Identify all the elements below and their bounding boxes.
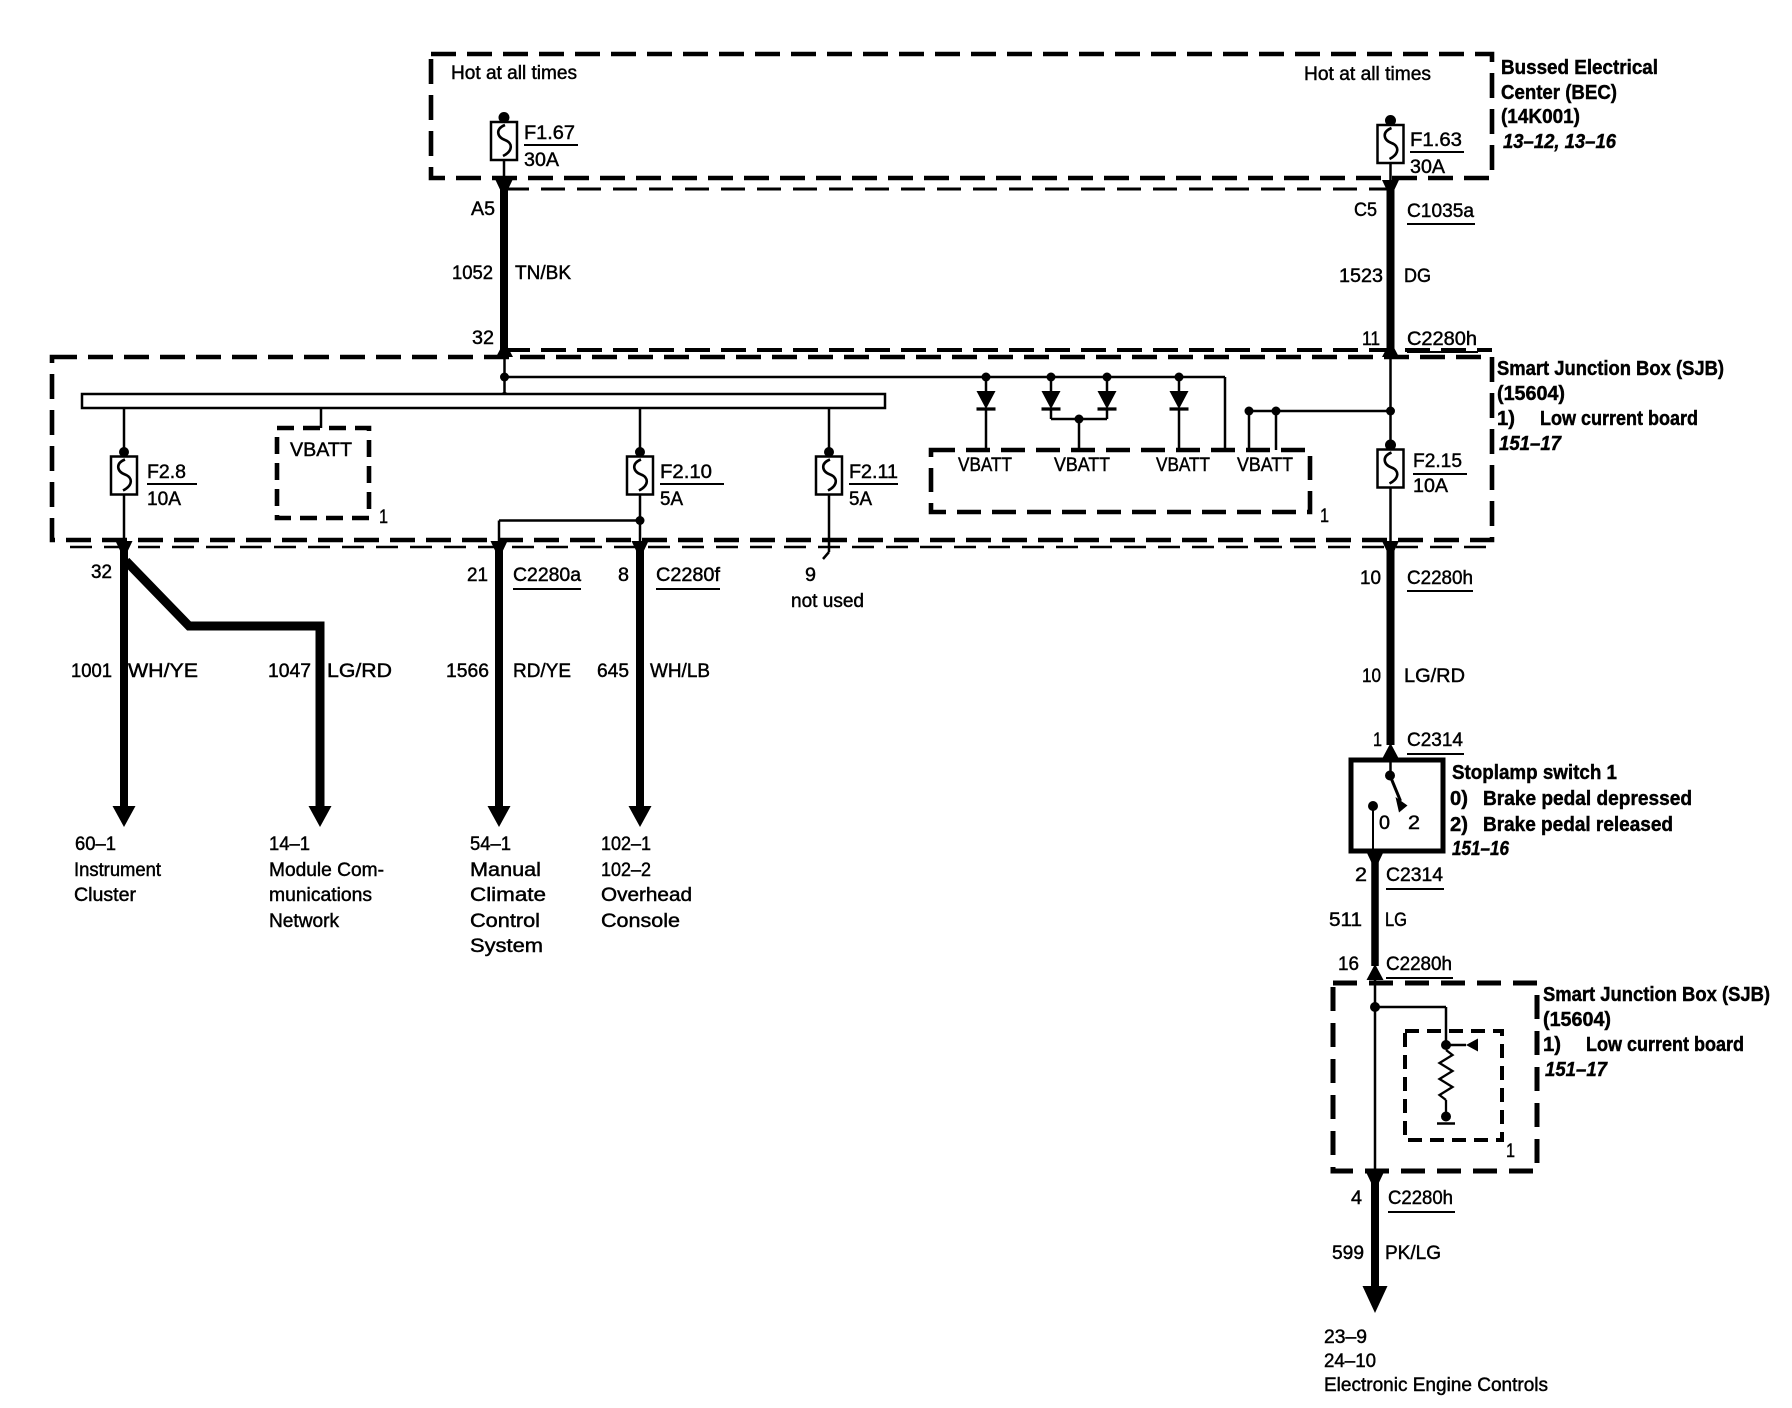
svg-text:10A: 10A: [1413, 476, 1448, 497]
svg-text:Electronic Engine Controls: Electronic Engine Controls: [1324, 1375, 1548, 1396]
svg-text:511: 511: [1329, 910, 1362, 931]
resistor R1: [1440, 1050, 1453, 1100]
svg-text:13–12, 13–16: 13–12, 13–16: [1503, 131, 1617, 153]
svg-text:C2280a: C2280a: [513, 565, 581, 586]
arrow to instrument cluster: [113, 806, 136, 827]
svg-text:VBATT: VBATT: [290, 440, 352, 461]
connector pin 1 C2314 into stoplamp switch: [1373, 730, 1464, 759]
node resistor top with wiper arrow: [1441, 1031, 1478, 1052]
diode D3: [1098, 373, 1117, 420]
svg-text:32: 32: [472, 328, 494, 349]
svg-text:Low current board: Low current board: [1586, 1034, 1744, 1056]
label VBATT (4): [1237, 455, 1293, 476]
svg-text:VBATT: VBATT: [1237, 455, 1293, 476]
svg-text:Bussed Electrical: Bussed Electrical: [1501, 57, 1658, 79]
label F2.11 / 5A: [849, 462, 898, 510]
svg-text:4: 4: [1351, 1188, 1362, 1209]
svg-text:5A: 5A: [660, 489, 683, 510]
node junction to resistor branch: [1370, 1002, 1380, 1012]
svg-text:Instrument: Instrument: [74, 860, 162, 881]
wire 645 WH/LB: [636, 545, 644, 808]
node junction at bus bar: [501, 392, 509, 400]
svg-text:30A: 30A: [1410, 157, 1445, 178]
label F1.63 / 30A: [1410, 130, 1464, 178]
svg-text:VBATT: VBATT: [1156, 455, 1210, 476]
wire fuse F2.11 to pin 9 not used: [823, 495, 829, 560]
wire 511 LG: [1371, 856, 1379, 966]
svg-text:DG: DG: [1404, 266, 1431, 287]
svg-text:F2.8: F2.8: [147, 462, 186, 483]
svg-text:Hot at all times: Hot at all times: [451, 63, 577, 84]
svg-text:11: 11: [1362, 329, 1380, 350]
svg-text:VBATT: VBATT: [1054, 455, 1110, 476]
box VBATT dashed: [277, 428, 369, 518]
wire 599 PK/LG: [1371, 1180, 1379, 1288]
label 1566 RD/YE: [446, 661, 571, 682]
svg-text:Climate: Climate: [470, 885, 546, 906]
svg-text:F2.11: F2.11: [849, 462, 898, 483]
box Bussed Electrical Center (BEC) dashed outline: [431, 54, 1492, 178]
svg-text:1): 1): [1497, 408, 1515, 430]
svg-text:1001: 1001: [71, 661, 112, 682]
label SJB title block: [1497, 358, 1724, 455]
svg-text:599: 599: [1332, 1243, 1364, 1264]
svg-text:WH/LB: WH/LB: [650, 661, 710, 682]
wire fuse F1.63 to BEC border: [1389, 163, 1392, 180]
svg-text:Hot at all times: Hot at all times: [1304, 64, 1431, 85]
svg-text:Center (BEC): Center (BEC): [1501, 82, 1617, 104]
connector pin 4 C2280h exit: [1351, 1172, 1455, 1212]
svg-text:10: 10: [1360, 568, 1381, 589]
svg-text:1047: 1047: [268, 661, 311, 682]
svg-text:102–1: 102–1: [601, 834, 651, 855]
svg-text:LG/RD: LG/RD: [327, 661, 392, 682]
arrow to manual climate control system: [488, 806, 511, 827]
svg-text:1052: 1052: [452, 263, 493, 284]
svg-text:5A: 5A: [849, 489, 872, 510]
switch common contact from pin 1: [1385, 760, 1395, 781]
wire 1047 LG/RD branch: [126, 561, 320, 808]
label VBATT (2): [1054, 455, 1110, 476]
label 1 (VBATT box pin): [379, 507, 388, 528]
connector pin 32 into SJB: [472, 328, 513, 357]
svg-text:C2280h: C2280h: [1388, 1188, 1453, 1209]
svg-text:F2.10: F2.10: [660, 462, 712, 483]
svg-text:Manual: Manual: [470, 860, 541, 881]
label F2.10 / 5A: [660, 462, 724, 510]
label VBATT (3): [1156, 455, 1210, 476]
svg-text:32: 32: [91, 562, 112, 583]
connector pin 21 C2280a exit: [467, 541, 581, 589]
svg-text:1: 1: [1373, 730, 1382, 751]
svg-text:C2314: C2314: [1386, 865, 1443, 886]
connector pin C5 C1035a: [1354, 180, 1475, 224]
svg-text:151–17: 151–17: [1499, 433, 1562, 455]
svg-text:LG: LG: [1385, 910, 1407, 931]
svg-text:Brake pedal depressed: Brake pedal depressed: [1483, 788, 1692, 810]
wire 1052 TN/BK: [500, 186, 508, 352]
svg-text:VBATT: VBATT: [958, 455, 1012, 476]
wire bus bar to fuse F2.8: [123, 408, 126, 448]
label 2 (switch position): [1408, 813, 1420, 834]
bus bar: [82, 394, 885, 408]
svg-text:C2280f: C2280f: [656, 565, 721, 586]
dashed line above SJB top border: [505, 348, 1492, 352]
svg-text:LG/RD: LG/RD: [1404, 666, 1465, 687]
arrow to electronic engine controls: [1363, 1286, 1388, 1313]
wire pin 11 entry to fuse F2.15: [1389, 357, 1392, 450]
wire bus bar stub to VBATT box: [320, 408, 323, 428]
connector pin 11 C2280h into SJB: [1362, 329, 1478, 357]
svg-text:C5: C5: [1354, 200, 1377, 221]
connector pin 2 C2314 exit: [1355, 852, 1444, 889]
label 1001 WH/YE: [71, 661, 198, 682]
svg-text:Control: Control: [470, 911, 540, 932]
connector pin A5: [471, 180, 513, 220]
box low current board inner dashed: [1405, 1031, 1502, 1140]
arrow to module communications network: [309, 806, 332, 827]
svg-text:F1.63: F1.63: [1410, 130, 1462, 151]
label pin 9 not used: [791, 565, 864, 612]
svg-text:1566: 1566: [446, 661, 489, 682]
fuse F2.11 5A: [816, 447, 842, 495]
svg-text:14–1: 14–1: [269, 834, 310, 855]
switch contact 0 to pin 2: [1368, 801, 1378, 851]
label F2.15 / 10A: [1413, 451, 1467, 497]
fuse F1.63 30A: [1378, 115, 1404, 163]
svg-text:F2.15: F2.15: [1413, 451, 1462, 472]
svg-text:TN/BK: TN/BK: [515, 263, 571, 284]
resistor bottom terminal: [1437, 1100, 1455, 1124]
label 1 (VBATT x4 box pin): [1320, 506, 1329, 527]
label Hot at all times (left): [451, 63, 577, 84]
svg-text:Cluster: Cluster: [74, 885, 137, 906]
svg-text:645: 645: [597, 661, 629, 682]
svg-text:C2280h: C2280h: [1407, 568, 1473, 589]
svg-text:A5: A5: [471, 199, 495, 220]
diode D1: [977, 373, 996, 451]
label 1 (inner board pin): [1506, 1141, 1515, 1162]
svg-text:Overhead: Overhead: [601, 885, 692, 906]
label stoplamp switch block: [1450, 762, 1692, 860]
svg-text:2): 2): [1450, 814, 1468, 836]
svg-text:24–10: 24–10: [1324, 1351, 1376, 1372]
svg-text:16: 16: [1338, 954, 1359, 975]
svg-text:23–9: 23–9: [1324, 1327, 1367, 1348]
fuse F2.8 10A: [111, 447, 137, 495]
svg-text:30A: 30A: [524, 150, 559, 171]
label F1.67 / 30A: [524, 123, 578, 171]
connector pin 10 C2280h exit: [1360, 541, 1473, 591]
wire 1523 DG: [1387, 186, 1395, 352]
label destination 60-1 Instrument Cluster: [74, 834, 162, 906]
wire fuse F2.10 to pins 8 and 21: [499, 495, 640, 542]
label destination 102-1 102-2 Overhead Console: [601, 834, 692, 932]
wire fuse F2.15 to SJB border: [1389, 488, 1392, 542]
label destination 23-9 24-10 Electronic Engine Controls: [1324, 1327, 1548, 1396]
label 511 LG: [1329, 910, 1407, 931]
svg-text:Console: Console: [601, 911, 680, 932]
label 1047 LG/RD: [268, 661, 392, 682]
label VBATT (1): [958, 455, 1012, 476]
svg-text:System: System: [470, 936, 543, 957]
svg-text:munications: munications: [269, 885, 372, 906]
wire through SJB lower: [1374, 980, 1377, 1172]
label 599 PK/LG: [1332, 1243, 1441, 1264]
svg-text:C2280h: C2280h: [1386, 954, 1452, 975]
wire fuse F1.67 to BEC border: [503, 160, 506, 180]
svg-text:Smart Junction Box (SJB): Smart Junction Box (SJB): [1497, 358, 1724, 380]
wire junction to inner board: [1375, 1007, 1446, 1031]
svg-text:C1035a: C1035a: [1407, 201, 1474, 222]
svg-text:0: 0: [1379, 813, 1390, 834]
label F2.8 / 10A: [147, 462, 197, 510]
connector pin 16 C2280h into SJB low current board: [1338, 954, 1453, 980]
svg-text:(15604): (15604): [1497, 383, 1565, 405]
wire 1566 RD/YE: [495, 545, 503, 808]
label 10 LG/RD: [1362, 666, 1465, 687]
svg-text:not used: not used: [791, 591, 864, 612]
svg-text:(15604): (15604): [1543, 1009, 1611, 1031]
svg-text:1523: 1523: [1339, 266, 1383, 287]
wire bus bar to fuse F2.11: [828, 408, 831, 448]
svg-text:Network: Network: [269, 911, 339, 932]
wire VBATT box stubs to F2.15 feed: [1245, 407, 1396, 451]
box Smart Junction Box (SJB) dashed outline: [52, 357, 1492, 540]
svg-text:1: 1: [379, 507, 388, 528]
svg-text:Low current board: Low current board: [1540, 408, 1698, 430]
label VBATT: [290, 440, 352, 461]
dashed line below SJB bottom border: [70, 546, 1492, 549]
wire 1001 WH/YE: [120, 545, 128, 808]
fuse F1.67 30A: [491, 112, 517, 160]
svg-text:151–17: 151–17: [1545, 1059, 1608, 1081]
wire fuse F2.8 to SJB border: [123, 495, 126, 542]
svg-text:10: 10: [1362, 666, 1381, 687]
label 645 WH/LB: [597, 661, 710, 682]
label 1523 DG: [1339, 266, 1431, 287]
label BEC title block: [1501, 57, 1658, 153]
svg-text:F1.67: F1.67: [524, 123, 575, 144]
box Smart Junction Box (SJB) lower dashed outline: [1333, 983, 1537, 1171]
svg-text:2: 2: [1408, 813, 1420, 834]
svg-text:C2314: C2314: [1407, 730, 1463, 751]
svg-text:10A: 10A: [147, 489, 181, 510]
svg-text:1): 1): [1543, 1034, 1561, 1056]
wire pin 32 entry to bus bar: [503, 357, 506, 395]
svg-text:1: 1: [1320, 506, 1329, 527]
box VBATT x4 dashed: [931, 450, 1310, 512]
wire 10 LG/RD: [1387, 545, 1395, 745]
connector pin 8 C2280f exit: [618, 541, 721, 589]
diode D2: [1042, 373, 1061, 420]
svg-text:Stoplamp switch 1: Stoplamp switch 1: [1452, 762, 1617, 784]
fuse F2.15 10A: [1378, 440, 1404, 488]
connector pin 32 C2280 exit: [91, 541, 133, 583]
svg-text:1: 1: [1506, 1141, 1515, 1162]
node junction below F2.10: [636, 516, 645, 525]
svg-text:9: 9: [805, 565, 816, 586]
label destination 54-1 Manual Climate Control System: [470, 834, 546, 957]
dashed line below BEC between connectors: [505, 188, 1391, 191]
diode D4: [1170, 373, 1189, 451]
svg-text:PK/LG: PK/LG: [1385, 1243, 1441, 1264]
svg-text:WH/YE: WH/YE: [128, 661, 198, 682]
label Hot at all times (right): [1304, 64, 1431, 85]
switch arm to position 2: [1390, 776, 1408, 813]
svg-text:(14K001): (14K001): [1501, 106, 1580, 128]
svg-text:2: 2: [1355, 865, 1367, 886]
box stoplamp switch: [1351, 760, 1443, 851]
svg-text:RD/YE: RD/YE: [513, 661, 571, 682]
svg-text:Module Com-: Module Com-: [269, 860, 384, 881]
fuse F2.10 5A: [627, 447, 653, 495]
node junction at diode feed line: [500, 373, 509, 382]
svg-text:0): 0): [1450, 788, 1468, 810]
svg-text:C2280h: C2280h: [1407, 329, 1477, 350]
svg-text:Brake pedal released: Brake pedal released: [1483, 814, 1673, 836]
label SJB lower title block: [1543, 984, 1770, 1081]
svg-text:102–2: 102–2: [601, 860, 651, 881]
label destination 14-1 Module Communications Network: [269, 834, 384, 932]
svg-text:151–16: 151–16: [1452, 838, 1510, 860]
arrow to overhead console: [629, 806, 652, 827]
wire diode feed line: [505, 377, 1226, 450]
wire joining D2 D3 to VBATT box: [1051, 415, 1107, 451]
label 1052 TN/BK: [452, 263, 571, 284]
label 0: [1379, 813, 1390, 834]
svg-text:Smart Junction Box (SJB): Smart Junction Box (SJB): [1543, 984, 1770, 1006]
svg-text:54–1: 54–1: [470, 834, 511, 855]
svg-text:8: 8: [618, 565, 629, 586]
wire bus bar to fuse F2.10: [639, 408, 642, 448]
svg-text:21: 21: [467, 565, 488, 586]
svg-text:60–1: 60–1: [75, 834, 116, 855]
